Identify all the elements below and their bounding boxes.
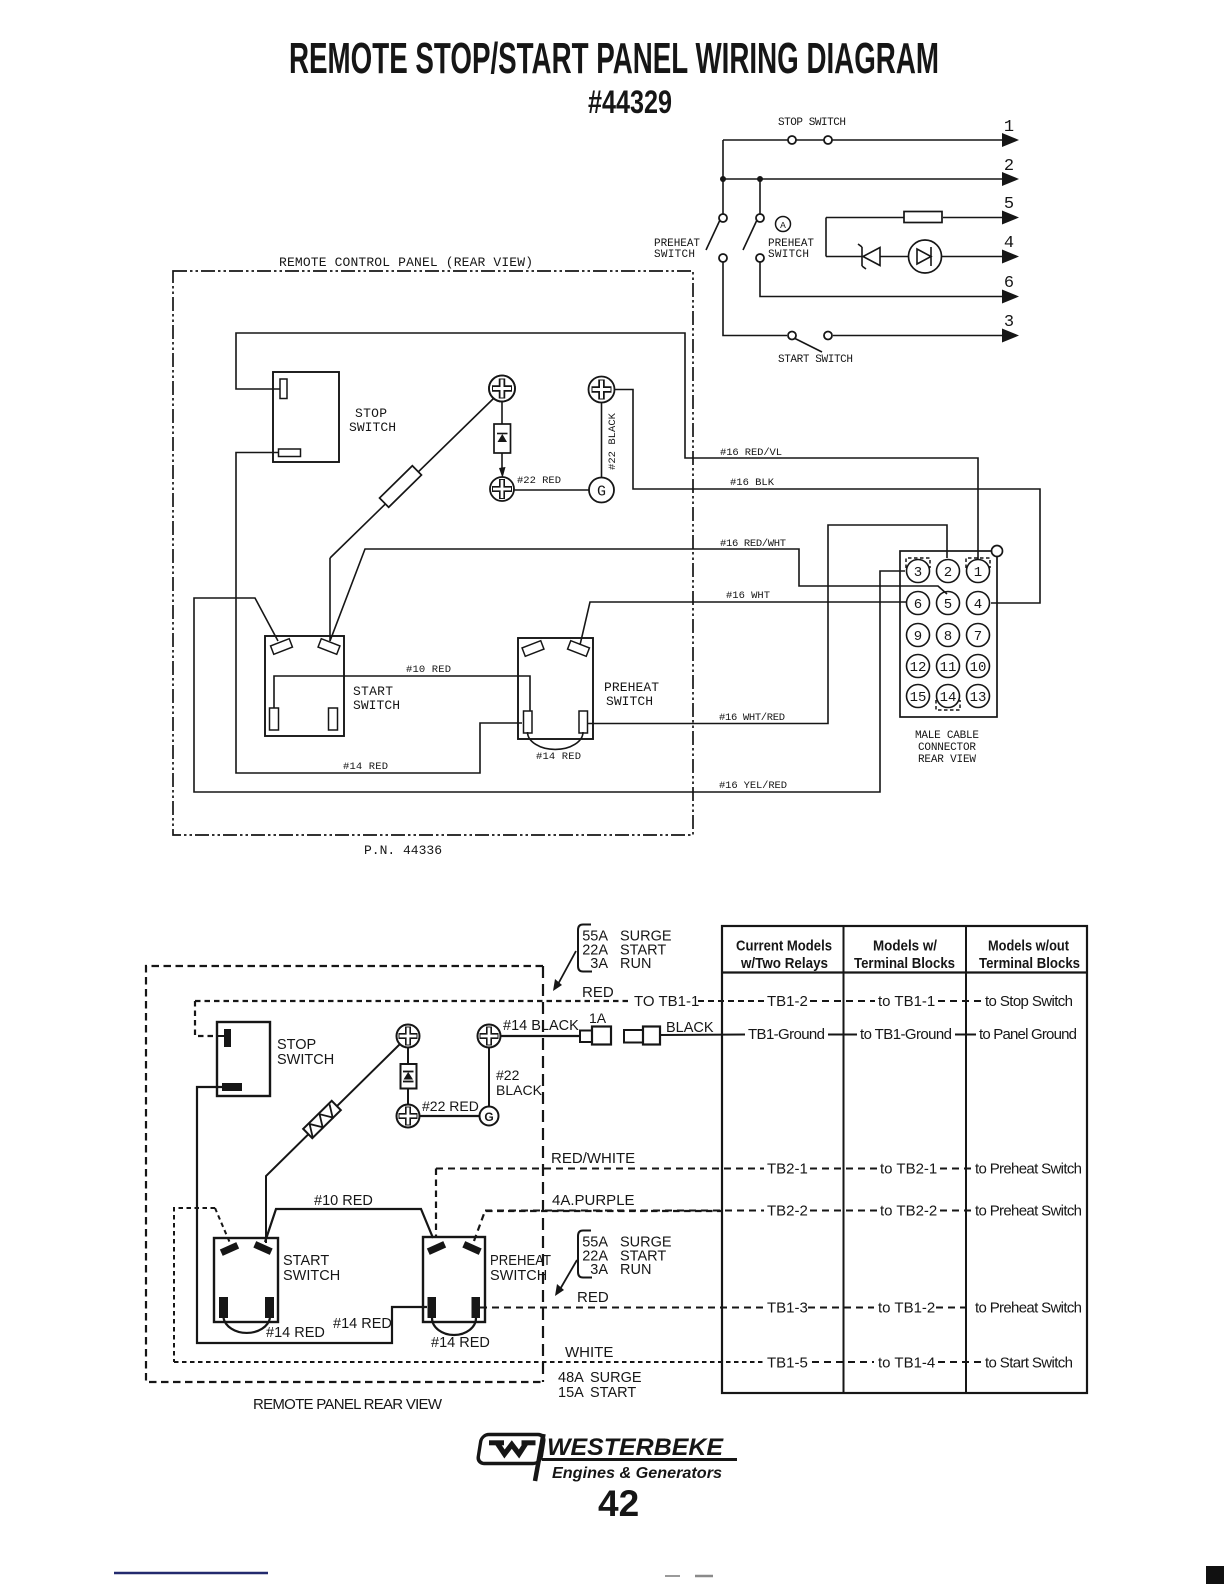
preheat switch box: [423, 1237, 485, 1322]
svg-text:11: 11: [940, 660, 957, 676]
preheat switch jumper arc: [528, 732, 584, 749]
svg-text:#14 RED: #14 RED: [333, 1316, 392, 1332]
svg-text:SWITCH: SWITCH: [490, 1268, 547, 1284]
preheat switch terminal bottom-right: [579, 711, 588, 733]
wire row 6: [760, 262, 1002, 297]
pin 8: [937, 624, 960, 647]
svg-text:RUN: RUN: [620, 956, 651, 972]
svg-text:14: 14: [940, 690, 957, 706]
wire #16 WHT: [580, 602, 906, 645]
start switch terminal bottom-right: [329, 708, 338, 730]
pin 9: [907, 624, 930, 647]
svg-text:SWITCH: SWITCH: [283, 1268, 340, 1284]
stop switch box: [273, 372, 339, 462]
svg-text:TO TB1-1: TO TB1-1: [634, 993, 699, 1010]
svg-text:CONNECTOR: CONNECTOR: [918, 742, 976, 754]
svg-text:3A: 3A: [590, 956, 608, 972]
svg-text:#22 RED: #22 RED: [517, 475, 561, 487]
svg-text:RED: RED: [582, 984, 614, 1001]
header divider: [722, 971, 1087, 973]
pin 1 tab (dashed): [966, 558, 990, 568]
junction dot A: [720, 176, 726, 182]
arrow from bracket 2: [559, 1260, 577, 1291]
wire row 3: [723, 262, 787, 336]
svg-text:7: 7: [974, 629, 982, 645]
diode (in box): [501, 402, 503, 425]
svg-text:WESTERBEKE: WESTERBEKE: [547, 1434, 724, 1461]
svg-text:#14 BLACK: #14 BLACK: [503, 1018, 579, 1034]
connector body: [900, 551, 997, 717]
svg-text:TB1-5: TB1-5: [767, 1355, 808, 1372]
svg-text:#14 RED: #14 RED: [536, 751, 581, 763]
pin 6: [907, 592, 930, 615]
stop switch terminal 1: [280, 379, 287, 399]
svg-text:to Start Switch: to Start Switch: [985, 1355, 1073, 1372]
svg-text:3: 3: [914, 565, 922, 581]
pin 15: [907, 685, 930, 708]
svg-text:#14 RED: #14 RED: [343, 761, 388, 773]
svg-text:#10 RED: #10 RED: [406, 664, 451, 676]
arrow 4: [1002, 250, 1019, 264]
svg-text:#16 BLK: #16 BLK: [730, 477, 775, 489]
pin 4: [967, 592, 990, 615]
wire #22 BLACK: [488, 1048, 490, 1107]
svg-text:6: 6: [1004, 274, 1014, 293]
svg-text:1A: 1A: [589, 1010, 607, 1026]
svg-text:to Preheat Switch: to Preheat Switch: [975, 1300, 1082, 1317]
terminal 1 stub: [216, 1035, 224, 1037]
svg-text:TB1-2: TB1-2: [767, 993, 808, 1010]
svg-text:8: 8: [944, 629, 952, 645]
arrow 1: [1002, 133, 1019, 147]
preheat switch 1 contacts: [719, 214, 727, 222]
svg-text:4: 4: [1004, 234, 1014, 253]
svg-text:w/Two Relays: w/Two Relays: [740, 955, 828, 972]
wire 4A PURPLE dashed: [474, 1211, 722, 1241]
wire #16 RED/VL: [236, 333, 978, 559]
svg-text:TB1-3: TB1-3: [767, 1300, 808, 1317]
svg-text:SWITCH: SWITCH: [768, 249, 809, 261]
preheat switch terminal bottom-left: [428, 1297, 437, 1318]
resistor (rotated): [380, 466, 422, 508]
svg-text:to Stop Switch: to Stop Switch: [985, 993, 1073, 1010]
svg-text:#22 BLACK: #22 BLACK: [607, 412, 619, 470]
svg-text:A: A: [780, 220, 786, 231]
column divider 1: [843, 926, 845, 1393]
preheat switch terminal top-right: [462, 1241, 481, 1255]
connector corner circle: [992, 546, 1003, 557]
svg-text:#22: #22: [496, 1067, 520, 1083]
svg-text:to TB2-1: to TB2-1: [880, 1161, 937, 1178]
svg-text:START: START: [283, 1253, 329, 1269]
logo slash: [535, 1434, 544, 1481]
svg-text:to TB2-2: to TB2-2: [880, 1203, 937, 1220]
pin 2: [937, 560, 960, 583]
start switch terminal bottom-left: [219, 1297, 228, 1318]
start switch arm: [795, 339, 822, 353]
start switch terminal bottom-right: [265, 1297, 274, 1318]
svg-text:G: G: [484, 1110, 493, 1124]
svg-text:START: START: [353, 684, 393, 699]
svg-text:REMOTE STOP/START PANEL WIRING: REMOTE STOP/START PANEL WIRING DIAGRAM: [289, 34, 939, 83]
ground terminal G: [480, 1107, 499, 1126]
pin 10: [967, 655, 990, 678]
preheat switch 1 arm: [706, 221, 720, 250]
svg-text:RED/WHITE: RED/WHITE: [551, 1150, 635, 1167]
panel dash-dot border: [173, 271, 693, 835]
pin 5: [937, 592, 960, 615]
pin 11: [937, 655, 960, 678]
svg-text:SWITCH: SWITCH: [349, 420, 396, 435]
screw terminal + (lower): [492, 479, 512, 499]
svg-text:MALE CABLE: MALE CABLE: [915, 730, 979, 742]
svg-text:#22 RED: #22 RED: [422, 1098, 479, 1114]
screw terminal + (lower): [399, 1107, 418, 1126]
wire #22 RED: [420, 1115, 480, 1117]
svg-text:#16 RED/VL: #16 RED/VL: [720, 447, 782, 459]
arrow 2: [1002, 172, 1019, 186]
stop switch box: [217, 1022, 270, 1096]
wire row 2: [723, 178, 1002, 180]
wire: vertical to start switch: [329, 558, 331, 641]
svg-text:Models w/out: Models w/out: [988, 938, 1069, 955]
start switch terminal top-left: [220, 1242, 239, 1256]
wire row 1: [723, 139, 1002, 141]
svg-text:SWITCH: SWITCH: [606, 694, 653, 709]
coil resistor diagonal: [266, 1044, 400, 1243]
wire: vertical from row1 to row2: [722, 140, 724, 179]
start switch box: [214, 1238, 278, 1322]
svg-text:TB2-1: TB2-1: [767, 1161, 808, 1178]
table frame: [722, 926, 1087, 1393]
svg-text:Models w/: Models w/: [873, 938, 938, 955]
svg-text:PREHEAT: PREHEAT: [490, 1253, 551, 1269]
svg-text:5: 5: [944, 597, 952, 613]
pin 1: [967, 560, 990, 583]
stop switch contact circles: [788, 136, 796, 144]
stop switch terminal 2: [279, 449, 301, 457]
svg-text:to Preheat Switch: to Preheat Switch: [975, 1203, 1082, 1220]
arrow 6: [1002, 290, 1019, 304]
svg-text:Terminal Blocks: Terminal Blocks: [854, 955, 955, 972]
svg-text:WHITE: WHITE: [565, 1344, 613, 1361]
svg-text:2: 2: [1004, 157, 1014, 176]
svg-text:42: 42: [598, 1483, 639, 1524]
svg-text:#44329: #44329: [588, 84, 672, 120]
wire diagonal with resistor coil: [330, 399, 494, 559]
svg-text:#16 WHT: #16 WHT: [726, 590, 770, 602]
svg-text:5: 5: [1004, 195, 1014, 214]
row 3 dashes: [436, 1168, 764, 1170]
svg-text:STOP SWITCH: STOP SWITCH: [778, 117, 846, 129]
arrowhead onto lower screw: [499, 467, 506, 478]
wire #16 BLK: [615, 390, 1041, 604]
resistor: [904, 212, 942, 223]
junction dot B: [757, 176, 763, 182]
svg-text:3: 3: [1004, 313, 1014, 332]
row 6 dashes: [174, 1361, 764, 1363]
wire #16 RED/WHT: [330, 549, 947, 641]
preheat switch 2 arm: [743, 221, 757, 250]
svg-text:Terminal Blocks: Terminal Blocks: [979, 955, 1080, 972]
svg-text:Engines & Generators: Engines & Generators: [552, 1465, 722, 1482]
logo box: [477, 1435, 545, 1464]
row 2 solid connectors: [660, 1034, 745, 1037]
wire #16 WHT/RED: [588, 525, 947, 724]
svg-text:to TB1-4: to TB1-4: [878, 1355, 935, 1372]
LED indicator lamp: [909, 240, 942, 273]
svg-text:#16 WHT/RED: #16 WHT/RED: [719, 712, 785, 724]
screw terminal + (right): [480, 1027, 499, 1046]
wire TO TB1-1 (dashed RED): [195, 1000, 632, 1002]
svg-text:15: 15: [910, 690, 927, 706]
wire: [880, 256, 909, 258]
wire #22 RED: [514, 489, 589, 491]
svg-text:to Panel Ground: to Panel Ground: [979, 1026, 1077, 1043]
svg-text:REMOTE PANEL REAR VIEW: REMOTE PANEL REAR VIEW: [253, 1396, 443, 1413]
fuse rating bracket 1: [578, 925, 592, 972]
column divider 2: [965, 926, 967, 1393]
screw terminal + (upper left): [489, 376, 515, 402]
svg-text:BLACK: BLACK: [496, 1082, 543, 1098]
svg-text:STOP: STOP: [277, 1037, 316, 1053]
svg-text:PREHEAT: PREHEAT: [604, 680, 659, 695]
wire: junction A down to preheat switch 1: [722, 179, 724, 214]
svg-text:SURGE: SURGE: [590, 1370, 642, 1386]
dashed lead to start switch: [215, 1208, 230, 1243]
row 1 dashes: [698, 1000, 764, 1002]
arrow from bracket 1: [557, 951, 576, 986]
svg-text:#14 RED: #14 RED: [266, 1325, 325, 1341]
diode (in box): [407, 1048, 409, 1065]
preheat switch terminal top-right: [568, 641, 590, 657]
arrow 3: [1002, 329, 1019, 343]
preheat switch terminal bottom-right: [472, 1297, 481, 1318]
start switch contacts: [788, 332, 796, 340]
row 5 dashes: [480, 1307, 764, 1309]
pin 12: [907, 655, 930, 678]
pin 14 tab (dashed): [936, 700, 960, 710]
start switch jumper arc: [224, 1318, 271, 1333]
stop switch terminal 2: [222, 1083, 242, 1091]
wire #16 YEL/RED: [194, 571, 905, 792]
svg-text:RUN: RUN: [620, 1262, 651, 1278]
svg-text:REAR VIEW: REAR VIEW: [918, 754, 976, 766]
coil: [303, 1101, 341, 1138]
wire from stop switch to preheat switch: [197, 1087, 427, 1343]
row 4 dashes: [485, 1210, 764, 1212]
preheat switch box: [518, 638, 593, 739]
svg-text:48A: 48A: [558, 1370, 584, 1386]
svg-text:1: 1: [1004, 118, 1014, 137]
svg-text:G: G: [597, 484, 606, 501]
pin 3: [907, 560, 930, 583]
bottom right scan square: [1206, 1566, 1224, 1584]
wire row 4: [826, 256, 862, 258]
start switch terminal top-left: [271, 639, 293, 655]
preheat switch terminal top-left: [427, 1241, 446, 1255]
svg-text:9: 9: [914, 629, 922, 645]
start switch box: [265, 636, 344, 736]
wire: [942, 256, 1003, 258]
svg-text:to Preheat Switch: to Preheat Switch: [975, 1161, 1082, 1178]
svg-text:START: START: [590, 1385, 636, 1401]
ground terminal G: [589, 478, 614, 503]
wire: junction B down to preheat switch 2: [759, 179, 761, 214]
faint scan marks: [665, 1575, 680, 1577]
svg-text:SWITCH: SWITCH: [277, 1052, 334, 1068]
svg-text:TB2-2: TB2-2: [767, 1203, 808, 1220]
svg-text:1: 1: [974, 565, 982, 581]
start switch terminal top-right: [253, 1241, 272, 1255]
screw terminal + (left): [399, 1027, 418, 1046]
start switch terminal bottom-left: [270, 708, 279, 730]
start switch terminal top-right: [318, 639, 340, 655]
svg-text:to TB1-2: to TB1-2: [878, 1300, 935, 1317]
svg-text:15A: 15A: [558, 1385, 584, 1401]
logo underline: [542, 1458, 737, 1461]
stop switch terminal 1: [224, 1029, 231, 1047]
inner dotted border: [174, 1208, 215, 1362]
svg-text:to TB1-Ground: to TB1-Ground: [860, 1026, 952, 1043]
wire RED/WHITE dashed vertical: [435, 1169, 437, 1238]
svg-text:STOP: STOP: [355, 406, 387, 421]
wire #14 BLACK with fuse: [501, 1035, 581, 1037]
svg-text:3A: 3A: [590, 1262, 608, 1278]
pin 13: [967, 685, 990, 708]
svg-text:6: 6: [914, 597, 922, 613]
svg-text:P.N. 44336: P.N. 44336: [364, 843, 442, 858]
screw terminal + (upper right): [592, 380, 612, 400]
svg-text:SWITCH: SWITCH: [654, 249, 695, 261]
wire #14 RED (left run): [236, 453, 522, 774]
wire row 5 with resistor: [826, 217, 904, 219]
fuse rating bracket 2: [578, 1231, 592, 1278]
svg-text:#10 RED: #10 RED: [314, 1193, 373, 1209]
logo W: [489, 1440, 504, 1445]
outer dashed border: [146, 966, 543, 1382]
svg-text:SWITCH: SWITCH: [353, 698, 400, 713]
preheat switch terminal top-left: [522, 641, 544, 657]
svg-text:#16 RED/WHT: #16 RED/WHT: [720, 538, 786, 550]
preheat switch terminal bottom-left: [524, 711, 533, 733]
pin 3 tab (dashed): [906, 558, 930, 568]
svg-text:#14 RED: #14 RED: [431, 1335, 490, 1351]
svg-text:TB1-Ground: TB1-Ground: [748, 1026, 825, 1043]
wire: [943, 217, 1002, 219]
svg-text:4: 4: [974, 597, 982, 613]
svg-text:to TB1-1: to TB1-1: [878, 993, 935, 1010]
svg-text:START SWITCH: START SWITCH: [778, 354, 853, 366]
svg-text:2: 2: [944, 565, 952, 581]
pin 7: [967, 624, 990, 647]
svg-text:12: 12: [910, 660, 927, 676]
svg-text:RED: RED: [577, 1289, 609, 1306]
pin 14: [937, 685, 960, 708]
svg-text:#16 YEL/RED: #16 YEL/RED: [719, 780, 787, 792]
svg-text:REMOTE CONTROL PANEL (REAR VIE: REMOTE CONTROL PANEL (REAR VIEW): [279, 255, 533, 270]
svg-text:BLACK: BLACK: [666, 1020, 714, 1036]
zener diode: [861, 247, 863, 266]
arrow 5: [1002, 211, 1019, 225]
svg-text:4A.PURPLE: 4A.PURPLE: [552, 1192, 635, 1209]
svg-text:Current Models: Current Models: [736, 938, 832, 955]
svg-text:13: 13: [970, 690, 987, 706]
circled A: [776, 217, 791, 232]
bottom blue scan line: [114, 1572, 268, 1575]
wire #10 RED: [274, 676, 530, 711]
wire #22 BLACK: [601, 403, 603, 478]
preheat switch jumper arc: [432, 1318, 476, 1335]
wire: vertical joining row5 and row4: [825, 218, 827, 257]
svg-text:10: 10: [970, 660, 987, 676]
preheat switch 2 contacts: [756, 214, 764, 222]
wire #10 RED: [265, 1209, 433, 1242]
